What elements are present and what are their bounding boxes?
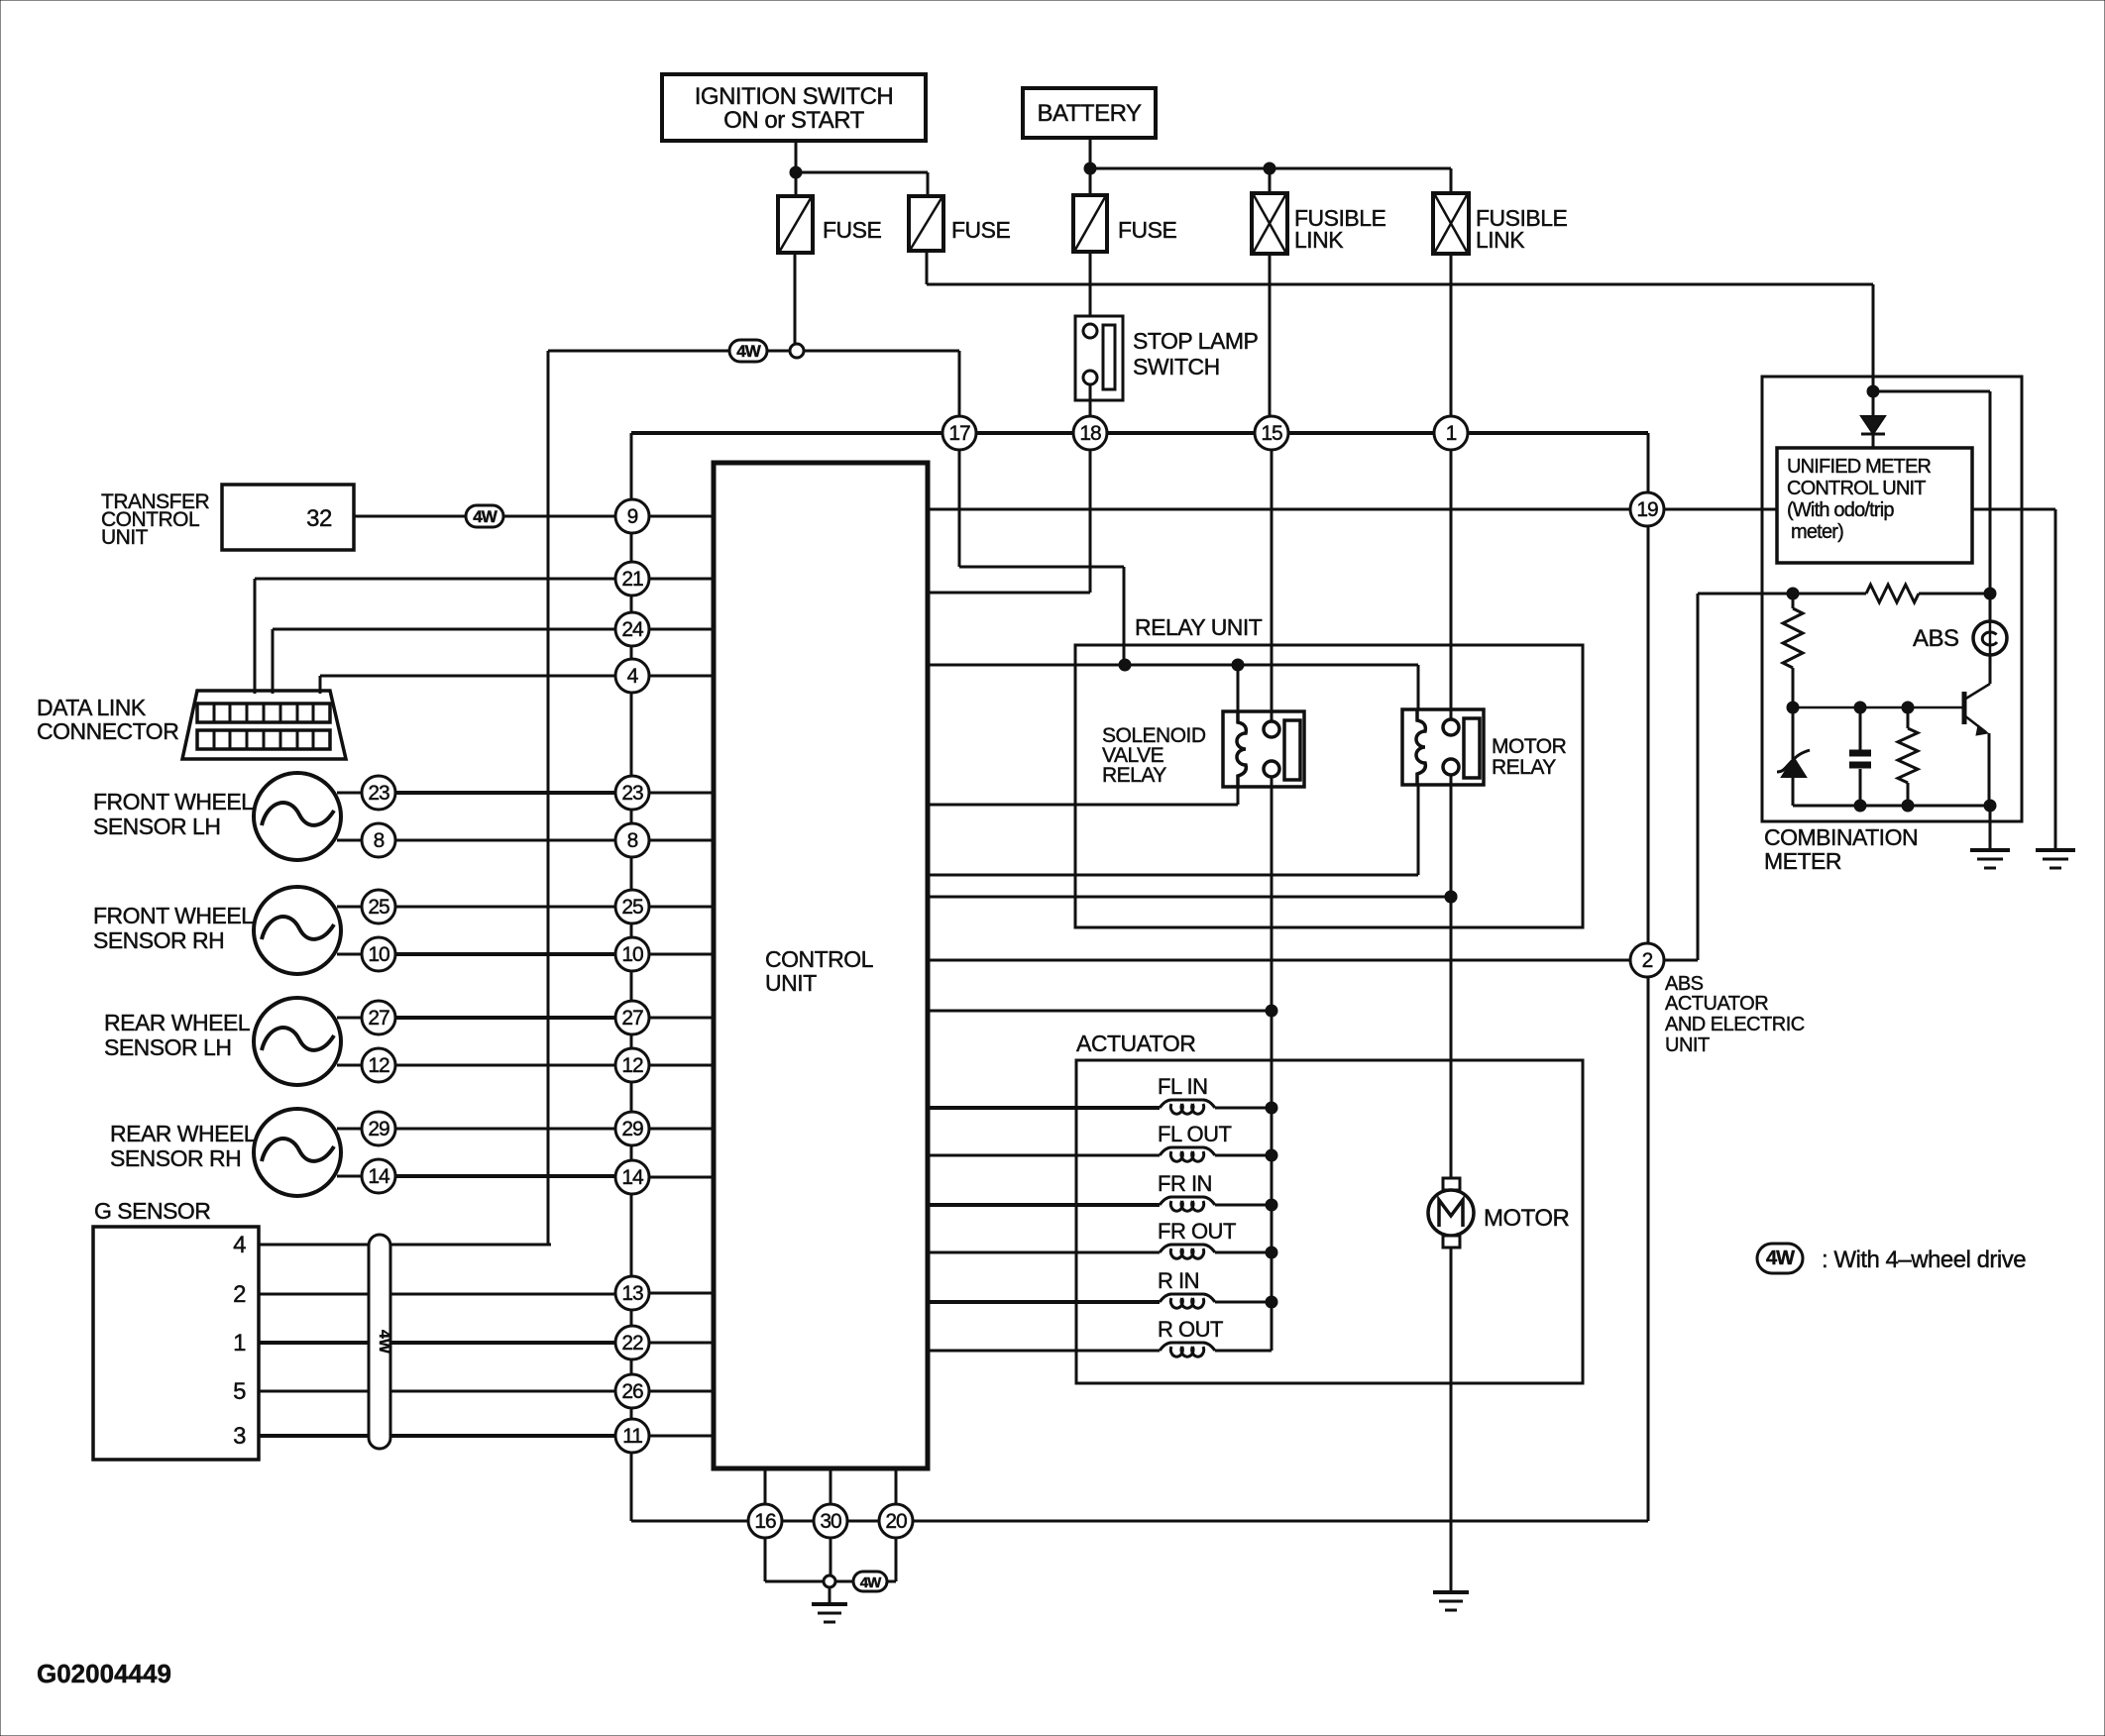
svg-text:16: 16 xyxy=(754,1510,776,1533)
svg-text:MOTOR: MOTOR xyxy=(1492,735,1567,758)
node 25 xyxy=(615,890,649,923)
node 12 xyxy=(615,1048,649,1082)
svg-text:R OUT: R OUT xyxy=(1158,1317,1223,1342)
pin 8 xyxy=(362,823,395,857)
svg-text:SENSOR LH: SENSOR LH xyxy=(104,1034,231,1060)
wire node1 to motor contact xyxy=(1450,450,1453,719)
label fusible link 2 xyxy=(1476,205,1568,253)
4W oval top xyxy=(729,340,767,362)
wire motor relay contact xyxy=(928,896,1451,899)
svg-text:R IN: R IN xyxy=(1158,1268,1199,1293)
actuator box xyxy=(1076,1060,1583,1383)
fuse F2 xyxy=(909,196,943,251)
svg-text:20: 20 xyxy=(885,1510,907,1533)
wire relay coil bus xyxy=(928,664,1418,667)
wire node 21 to control unit xyxy=(649,578,714,581)
transistor Q1 xyxy=(1964,655,1990,806)
label solenoid valve relay xyxy=(1102,724,1206,787)
wire junction to fuse2 top xyxy=(796,172,928,196)
svg-text:4W: 4W xyxy=(376,1330,392,1355)
svg-text:18: 18 xyxy=(1079,422,1101,445)
label front wheel sensor RH xyxy=(93,903,254,953)
label FUSE f3 xyxy=(1118,217,1177,243)
junction dot FL IN xyxy=(1266,1102,1277,1114)
svg-text:23: 23 xyxy=(368,782,389,805)
rear wheel sensor LH xyxy=(254,998,363,1085)
svg-text:UNIT: UNIT xyxy=(765,970,817,996)
solenoid coil FR IN xyxy=(928,1197,1272,1211)
node 10 xyxy=(615,937,649,971)
wire to node 19 xyxy=(928,508,1631,511)
wire node 24 to control unit xyxy=(649,628,714,631)
svg-text:FRONT WHEEL: FRONT WHEEL xyxy=(93,903,254,928)
wire node 10 to control unit xyxy=(649,953,714,956)
wire node 21 to DLC xyxy=(255,579,615,694)
svg-text:4W: 4W xyxy=(1766,1248,1795,1269)
wire motor contact down to motor xyxy=(1450,774,1453,1178)
ignition switch box xyxy=(662,74,926,141)
combination meter box xyxy=(1762,377,2022,821)
svg-text:14: 14 xyxy=(368,1165,390,1188)
label combination meter xyxy=(1764,824,1918,874)
svg-text:10: 10 xyxy=(621,943,643,966)
wire lamp to R1 xyxy=(1989,594,1992,622)
junction dot FR IN xyxy=(1266,1199,1277,1211)
wire node2 to comb meter resistor xyxy=(1665,594,1787,960)
battery box xyxy=(1023,88,1156,138)
svg-text:4W: 4W xyxy=(860,1574,882,1591)
wire node 17 down xyxy=(959,450,1124,665)
wire bus down to circle 2 xyxy=(1647,433,1650,944)
wire G pin1 to node 22 xyxy=(259,1341,615,1345)
pin 25 xyxy=(362,890,395,923)
connector open circle top xyxy=(790,344,804,358)
svg-text:1: 1 xyxy=(1446,422,1457,445)
wire node 4 to DLC xyxy=(320,676,615,694)
wire pin8 to node 8 xyxy=(395,839,615,842)
svg-text:FL OUT: FL OUT xyxy=(1158,1122,1231,1146)
svg-text:LINK: LINK xyxy=(1476,227,1525,253)
wire pin12 to node 12 xyxy=(395,1064,615,1067)
wire to fusible link 2 xyxy=(1450,168,1453,193)
svg-text:12: 12 xyxy=(621,1054,643,1077)
bus wire y437 xyxy=(631,431,1648,435)
svg-text:(With odo/trip: (With odo/trip xyxy=(1787,499,1894,521)
fuse F1 xyxy=(778,196,813,253)
label data link connector xyxy=(37,695,178,744)
svg-text:ABS: ABS xyxy=(1913,625,1959,652)
svg-text:DATA LINK: DATA LINK xyxy=(37,695,147,720)
pin 12 xyxy=(362,1048,395,1082)
label front wheel sensor LH xyxy=(93,789,254,839)
svg-text:4: 4 xyxy=(627,665,639,688)
label unified meter control unit xyxy=(1787,456,1932,543)
svg-text:UNIT: UNIT xyxy=(1665,1034,1710,1056)
node 16 xyxy=(748,1504,782,1538)
fusible link 1 xyxy=(1252,193,1287,254)
front wheel sensor RH xyxy=(254,887,363,974)
node 26 xyxy=(615,1374,649,1408)
node 8 xyxy=(615,823,649,857)
wire pin10 to node 10 xyxy=(395,952,615,956)
wire solenoid coil bottom stub xyxy=(1237,787,1240,805)
node 19 xyxy=(1630,492,1664,526)
wire pin29 to node 29 xyxy=(395,1128,615,1131)
wire node 18 down xyxy=(928,450,1090,593)
label FUSE f1 xyxy=(823,217,882,243)
pin 10 xyxy=(362,937,395,971)
svg-text:FR IN: FR IN xyxy=(1158,1171,1212,1196)
wire node 25 to control unit xyxy=(649,906,714,909)
rear wheel sensor RH xyxy=(254,1109,363,1196)
svg-text:UNIT: UNIT xyxy=(101,526,149,549)
node 1 xyxy=(1434,416,1468,450)
svg-text:FUSE: FUSE xyxy=(951,217,1011,243)
wire node 11 to control unit xyxy=(649,1435,714,1438)
solenoid coil FR OUT xyxy=(928,1245,1272,1258)
wire to fuse3 xyxy=(1089,168,1092,195)
svg-text:1: 1 xyxy=(233,1330,246,1356)
label motor relay xyxy=(1492,735,1567,779)
junction dot R1 left xyxy=(1787,588,1799,599)
junction dot diode top xyxy=(1867,385,1879,397)
svg-text:SENSOR RH: SENSOR RH xyxy=(93,927,224,953)
pin 23 xyxy=(362,776,395,810)
capacitor C1 xyxy=(1849,707,1871,806)
node 22 xyxy=(615,1326,649,1359)
4W oval TCU wire xyxy=(466,505,503,527)
motor relay xyxy=(1402,709,1484,785)
label abs actuator and electric unit xyxy=(1665,973,1805,1056)
ABS warning lamp xyxy=(1973,621,2007,655)
label FL OUT xyxy=(1158,1122,1231,1146)
svg-text:19: 19 xyxy=(1636,498,1658,521)
node 29 xyxy=(615,1112,649,1145)
svg-text:25: 25 xyxy=(621,896,643,919)
svg-text:STOP LAMP: STOP LAMP xyxy=(1133,328,1258,354)
wire diode branch right xyxy=(1873,391,1990,593)
junction dot capacitor bottom xyxy=(1854,800,1866,812)
node 11 xyxy=(615,1419,649,1453)
svg-text:AND ELECTRIC: AND ELECTRIC xyxy=(1665,1014,1805,1035)
svg-text:27: 27 xyxy=(621,1007,643,1030)
wire G pin4 xyxy=(259,1244,551,1247)
wire node19 into unified meter xyxy=(1631,508,1777,511)
wire to 4W oval bottom xyxy=(835,1580,853,1583)
wire fusible2 to circle 1 xyxy=(1450,254,1453,416)
wire node 22 to control unit xyxy=(649,1342,714,1345)
wire unified meter right to ground xyxy=(1972,509,2055,850)
svg-text:RELAY: RELAY xyxy=(1492,756,1556,779)
wire 30 to ground junction xyxy=(830,1538,832,1575)
svg-text:METER: METER xyxy=(1764,848,1841,874)
4W oval bottom xyxy=(853,1572,887,1591)
svg-text:22: 22 xyxy=(621,1332,643,1355)
wire solenoid coil bottom xyxy=(928,804,1238,807)
svg-text:meter): meter) xyxy=(1791,521,1843,543)
node 18 xyxy=(1073,416,1107,450)
svg-text:REAR WHEEL: REAR WHEEL xyxy=(104,1010,251,1035)
zener diode Z1 xyxy=(1777,707,1810,806)
svg-text:REAR WHEEL: REAR WHEEL xyxy=(110,1121,257,1146)
label FR IN xyxy=(1158,1171,1212,1196)
svg-text:26: 26 xyxy=(621,1380,643,1403)
svg-text:ACTUATOR: ACTUATOR xyxy=(1665,993,1768,1015)
junction dot FL OUT xyxy=(1266,1149,1277,1161)
svg-text:15: 15 xyxy=(1261,422,1282,445)
junction dot capacitor top xyxy=(1854,702,1866,713)
base bus wire xyxy=(1793,706,1964,709)
svg-text:FL IN: FL IN xyxy=(1158,1074,1207,1099)
junction dot R3 bottom xyxy=(1902,800,1914,812)
ground motor xyxy=(1433,1592,1469,1610)
wire to solenoid contact line xyxy=(928,1010,1272,1013)
svg-text:ON or START: ON or START xyxy=(723,107,864,134)
svg-text:5: 5 xyxy=(233,1378,246,1405)
wire coil top solenoid xyxy=(1237,665,1240,711)
solenoid valve relay xyxy=(1223,711,1304,787)
wire ignition to junction xyxy=(795,141,798,172)
svg-text:SWITCH: SWITCH xyxy=(1133,354,1220,380)
resistor R1 top xyxy=(1793,585,1990,602)
svg-text:ACTUATOR: ACTUATOR xyxy=(1076,1031,1195,1056)
label R OUT xyxy=(1158,1317,1223,1342)
svg-text:8: 8 xyxy=(374,829,385,852)
wire pin25 to node 25 xyxy=(395,906,615,909)
svg-text:17: 17 xyxy=(948,422,970,445)
stop lamp switch xyxy=(1075,316,1123,400)
svg-text:FUSE: FUSE xyxy=(823,217,882,243)
node 13 xyxy=(615,1276,649,1310)
wire node 14 to control unit xyxy=(649,1176,714,1179)
junction dot battery xyxy=(1084,163,1096,174)
svg-text:4W: 4W xyxy=(473,507,498,526)
node 14 xyxy=(615,1160,649,1194)
4W capsule G sensor xyxy=(369,1235,392,1449)
pin 14 xyxy=(362,1159,395,1193)
label rear wheel sensor RH xyxy=(110,1121,257,1171)
pin wire 20 xyxy=(895,1468,898,1504)
label stop lamp switch xyxy=(1133,328,1258,380)
label ABS lamp xyxy=(1913,625,1959,652)
junction dot fusible1 xyxy=(1264,163,1275,174)
resistor R3 xyxy=(1898,707,1918,806)
svg-text:SENSOR LH: SENSOR LH xyxy=(93,814,220,839)
svg-text:8: 8 xyxy=(627,829,638,852)
node 15 xyxy=(1255,416,1288,450)
svg-text:RELAY: RELAY xyxy=(1102,764,1166,787)
G sensor box xyxy=(93,1227,259,1460)
svg-text:24: 24 xyxy=(621,618,644,641)
solenoid coil R IN xyxy=(928,1294,1272,1308)
connector open circle bottom xyxy=(824,1575,835,1587)
ground control unit xyxy=(812,1587,847,1622)
junction dot solenoid coil top xyxy=(1232,659,1244,671)
diode D1 xyxy=(1861,377,1885,448)
svg-text:9: 9 xyxy=(627,505,638,528)
pin wire 30 xyxy=(830,1468,832,1504)
front wheel sensor LH xyxy=(254,773,363,860)
svg-text:13: 13 xyxy=(621,1282,643,1305)
junction dot motor top xyxy=(1445,891,1457,903)
unified meter control unit box xyxy=(1777,448,1972,563)
column vertical x637 xyxy=(631,433,748,1521)
wire fuse1 to 4W connector xyxy=(794,253,797,344)
label fusible link 1 xyxy=(1294,205,1386,253)
wire motor relay coil bottom xyxy=(928,874,1418,877)
svg-text:12: 12 xyxy=(368,1054,389,1077)
svg-text:21: 21 xyxy=(621,568,643,591)
label FR OUT xyxy=(1158,1219,1236,1244)
svg-text:CONNECTOR: CONNECTOR xyxy=(37,718,178,744)
svg-text:25: 25 xyxy=(368,896,389,919)
wire junction to fuse1 top xyxy=(795,172,798,196)
svg-text:4: 4 xyxy=(233,1232,246,1258)
junction dot emitter bottom xyxy=(1984,800,1996,812)
pin wire 16 xyxy=(764,1468,767,1504)
wire node 27 to control unit xyxy=(649,1017,714,1020)
svg-text:BATTERY: BATTERY xyxy=(1038,100,1142,127)
svg-text:MOTOR: MOTOR xyxy=(1484,1205,1570,1232)
label relay unit xyxy=(1135,614,1263,640)
label transfer control unit xyxy=(101,490,210,549)
svg-text:G SENSOR: G SENSOR xyxy=(94,1198,210,1224)
node 30 xyxy=(814,1504,847,1538)
svg-text:23: 23 xyxy=(621,782,643,805)
label rear wheel sensor LH xyxy=(104,1010,251,1060)
wire to fusible link 1 xyxy=(1269,168,1272,193)
svg-text:LINK: LINK xyxy=(1294,227,1344,253)
node 9 xyxy=(615,499,649,533)
svg-text:RELAY UNIT: RELAY UNIT xyxy=(1135,614,1263,640)
node 21 xyxy=(615,562,649,596)
wire emitter to ground xyxy=(1989,806,1992,850)
svg-text:27: 27 xyxy=(368,1007,389,1030)
node 4 xyxy=(615,659,649,693)
svg-text:: With 4–wheel drive: : With 4–wheel drive xyxy=(1822,1247,2026,1273)
svg-text:CONTROL: CONTROL xyxy=(765,946,874,972)
wire circle2 down xyxy=(1647,978,1650,1521)
figure number xyxy=(37,1659,171,1688)
wire motor coil bottom stub xyxy=(1417,785,1420,875)
wire 4W left and down x553 xyxy=(548,351,790,1245)
wire fuse3 to stop lamp switch xyxy=(1089,252,1092,324)
junction dot FR OUT xyxy=(1266,1247,1277,1258)
label actuator xyxy=(1076,1031,1195,1056)
junction dot ignition xyxy=(790,166,802,178)
junction dot R IN xyxy=(1266,1296,1277,1308)
wire to node 2 xyxy=(928,959,1631,962)
pin 27 xyxy=(362,1001,395,1034)
legend text xyxy=(1822,1247,2026,1273)
4W legend oval xyxy=(1757,1244,1803,1273)
svg-text:30: 30 xyxy=(820,1510,841,1533)
wire pin14 to node 14 xyxy=(395,1174,615,1178)
svg-text:COMBINATION: COMBINATION xyxy=(1764,824,1918,850)
svg-text:3: 3 xyxy=(233,1423,246,1450)
wire motor to ground xyxy=(1450,1248,1453,1592)
wire node 26 to control unit xyxy=(649,1390,714,1393)
wire battery bus right xyxy=(1090,167,1451,170)
node 2 xyxy=(1630,943,1664,977)
svg-text:IGNITION SWITCH: IGNITION SWITCH xyxy=(695,83,893,110)
label G sensor xyxy=(94,1198,210,1224)
wire node 12 to control unit xyxy=(649,1064,714,1067)
node 23 xyxy=(615,776,649,810)
wire solenoid contact down actuator xyxy=(1271,776,1274,1351)
wire node15 to solenoid contact xyxy=(1271,450,1274,722)
svg-text:10: 10 xyxy=(368,943,389,966)
wire node 29 to control unit xyxy=(649,1128,714,1131)
wire node 23 to control unit xyxy=(649,792,714,795)
pin 29 xyxy=(362,1112,395,1145)
label motor xyxy=(1484,1205,1570,1232)
node 20 xyxy=(879,1504,913,1538)
svg-text:29: 29 xyxy=(368,1118,389,1140)
label FUSE f2 xyxy=(951,217,1011,243)
junction dot 17wire-coilbus xyxy=(1119,659,1131,671)
wire node 24 to DLC xyxy=(273,629,615,694)
junction dot R3 top xyxy=(1902,702,1914,713)
wire 16 to ground junction xyxy=(765,1538,824,1581)
svg-text:FR OUT: FR OUT xyxy=(1158,1219,1236,1244)
solenoid coil FL IN xyxy=(928,1100,1272,1114)
data link connector xyxy=(182,691,346,759)
junction dot R1 right xyxy=(1984,588,1996,599)
wire pin27 to node 27 xyxy=(395,1016,615,1020)
svg-text:G02004449: G02004449 xyxy=(37,1659,171,1688)
wire pin23 to node 23 xyxy=(395,791,615,795)
wire coil top motor relay xyxy=(1417,665,1420,709)
relay unit box xyxy=(1075,645,1583,927)
svg-text:4W: 4W xyxy=(736,342,761,361)
motor M xyxy=(1428,1178,1474,1248)
bottom wire 16-30-20 to right xyxy=(748,1520,1648,1523)
wire node 8 to control unit xyxy=(649,839,714,842)
wire node 13 to control unit xyxy=(649,1292,714,1295)
svg-text:32: 32 xyxy=(306,505,332,532)
wire 4W to node 20 xyxy=(887,1538,896,1581)
wire TCU to node 9 xyxy=(354,515,615,518)
wire battery down xyxy=(1089,138,1092,168)
junction dot solenoid contact line xyxy=(1266,1005,1277,1017)
svg-text:FRONT WHEEL: FRONT WHEEL xyxy=(93,789,254,814)
svg-text:FUSE: FUSE xyxy=(1118,217,1177,243)
resistor R2 left xyxy=(1783,594,1803,707)
svg-text:2: 2 xyxy=(233,1281,246,1308)
wire stop lamp to circle 18 xyxy=(1089,384,1092,416)
wire G pin3 to node 11 xyxy=(259,1434,615,1438)
G sensor pin numbers xyxy=(233,1232,246,1450)
svg-text:ABS: ABS xyxy=(1665,973,1704,995)
solenoid coil FL OUT xyxy=(928,1147,1272,1161)
wire connector to circle 17 xyxy=(804,351,959,416)
svg-text:29: 29 xyxy=(621,1118,643,1140)
wire fusible1 to circle 15 xyxy=(1269,254,1272,416)
node 17 xyxy=(942,416,976,450)
svg-text:UNIFIED METER: UNIFIED METER xyxy=(1787,456,1932,478)
junction dot base bus left xyxy=(1787,702,1799,713)
fusible link 2 xyxy=(1433,193,1469,254)
node 24 xyxy=(615,612,649,646)
wire G pin2 to node 13 xyxy=(259,1293,615,1296)
label control unit xyxy=(765,946,874,996)
control unit box xyxy=(714,463,928,1468)
solenoid coil R OUT xyxy=(928,1343,1272,1356)
fuse F3 xyxy=(1073,195,1107,252)
svg-text:11: 11 xyxy=(622,1425,642,1448)
ground emitter xyxy=(1970,850,2010,868)
